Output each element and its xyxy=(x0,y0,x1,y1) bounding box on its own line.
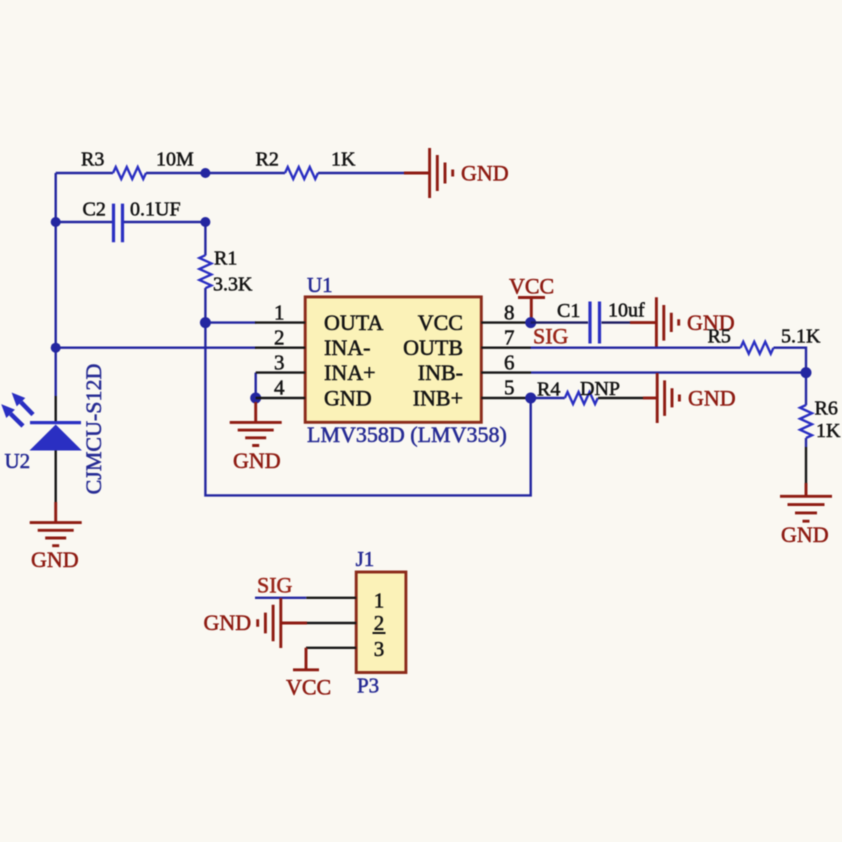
svg-text:R5: R5 xyxy=(708,326,731,348)
svg-text:R3: R3 xyxy=(81,149,104,171)
ground GND (top right) xyxy=(404,148,509,198)
node R3/R2 junction xyxy=(200,168,210,178)
svg-text:1: 1 xyxy=(274,301,285,325)
node INA- junction xyxy=(51,343,61,353)
svg-text:VCC: VCC xyxy=(286,675,331,700)
svg-text:R2: R2 xyxy=(256,149,279,171)
svg-text:1K: 1K xyxy=(331,149,356,171)
wire xyxy=(56,172,113,174)
resistor R4 xyxy=(537,378,620,404)
svg-text:GND: GND xyxy=(204,610,252,635)
ground GND (U1 pin4) xyxy=(230,402,282,473)
photodiode U2 xyxy=(5,364,107,495)
svg-text:R6: R6 xyxy=(815,398,838,420)
wire pin6 to node xyxy=(531,371,806,373)
pin 8 xyxy=(418,301,531,336)
connector J1 xyxy=(356,547,406,698)
svg-text:7: 7 xyxy=(504,326,515,350)
wire xyxy=(531,321,588,323)
svg-text:8: 8 xyxy=(504,301,515,325)
node pin3/pin4 junction xyxy=(250,393,261,404)
svg-text:3: 3 xyxy=(274,351,285,375)
svg-text:INB-: INB- xyxy=(418,360,463,385)
pin 6 xyxy=(418,351,531,386)
svg-text:SIG: SIG xyxy=(533,324,569,349)
ground GND (C1) xyxy=(630,297,735,347)
svg-text:CJMCU-S12D: CJMCU-S12D xyxy=(81,364,106,495)
ground GND (U2) xyxy=(30,502,82,572)
wire xyxy=(204,288,206,323)
svg-text:INA+: INA+ xyxy=(324,360,376,385)
svg-text:2: 2 xyxy=(274,326,285,350)
svg-text:6: 6 xyxy=(504,351,515,375)
svg-text:R4: R4 xyxy=(537,379,560,401)
capacitor C2 xyxy=(83,199,181,243)
pin 5 xyxy=(413,376,531,411)
wire xyxy=(774,348,807,373)
svg-text:10M: 10M xyxy=(156,149,194,171)
resistor R5 xyxy=(708,326,822,354)
ground GND (J1) xyxy=(204,598,308,648)
svg-text:0.1UF: 0.1UF xyxy=(130,199,181,221)
wire xyxy=(805,373,807,406)
svg-text:1K: 1K xyxy=(816,420,841,442)
svg-text:VCC: VCC xyxy=(418,310,463,335)
wire xyxy=(204,222,206,255)
svg-text:GND: GND xyxy=(31,547,79,572)
svg-text:5.1K: 5.1K xyxy=(781,326,821,348)
svg-text:LMV358D (LMV358): LMV358D (LMV358) xyxy=(307,422,507,447)
wire pin3 bend xyxy=(254,373,256,398)
svg-text:DNP: DNP xyxy=(580,378,620,400)
node C2/R1 junction xyxy=(200,217,210,227)
svg-text:U1: U1 xyxy=(307,273,333,297)
svg-text:GND: GND xyxy=(688,386,736,411)
node pin5 junction xyxy=(525,393,536,404)
pin 1 xyxy=(255,301,383,336)
wire xyxy=(56,221,112,223)
svg-text:INB+: INB+ xyxy=(413,386,463,411)
wire xyxy=(805,438,807,447)
ground GND (R6) xyxy=(780,483,832,547)
svg-text:J1: J1 xyxy=(356,547,375,571)
svg-text:5: 5 xyxy=(504,376,515,400)
pin 1 (J1) xyxy=(306,589,384,613)
svg-text:P3: P3 xyxy=(357,674,379,698)
resistor R6 xyxy=(800,398,841,442)
op-amp U1 xyxy=(305,273,507,447)
wire xyxy=(598,397,643,399)
node pin8 junction xyxy=(525,317,536,328)
wire xyxy=(531,397,565,399)
wire xyxy=(318,172,404,174)
svg-text:C2: C2 xyxy=(83,199,106,221)
svg-text:10uf: 10uf xyxy=(608,300,645,322)
svg-text:2: 2 xyxy=(374,611,385,635)
arrow 1 (light) xyxy=(12,393,33,415)
wire INA- xyxy=(56,347,256,349)
wire OUTA xyxy=(205,321,256,323)
wire xyxy=(55,451,57,503)
power VCC (top) xyxy=(509,274,554,323)
pin 2 (J1) xyxy=(307,611,386,635)
svg-text:C1: C1 xyxy=(557,300,580,322)
node C2 left junction xyxy=(51,217,61,227)
node OUTA junction xyxy=(200,317,211,328)
wire xyxy=(531,347,741,349)
net label SIG (J1) xyxy=(255,573,306,598)
capacitor C1 xyxy=(557,300,645,344)
svg-text:GND: GND xyxy=(461,161,509,186)
wire feedback OUTA to INB+ xyxy=(205,323,530,496)
resistor R1 xyxy=(199,248,253,296)
wire xyxy=(602,321,631,323)
pin 7 xyxy=(403,326,531,361)
svg-text:INA-: INA- xyxy=(324,335,370,360)
pin 4 xyxy=(256,376,372,411)
svg-text:OUTA: OUTA xyxy=(324,310,383,335)
svg-text:4: 4 xyxy=(274,376,285,400)
wire xyxy=(146,172,285,174)
svg-text:VCC: VCC xyxy=(509,274,554,299)
svg-text:3.3K: 3.3K xyxy=(213,274,253,296)
ground GND (R4) xyxy=(643,373,736,423)
svg-text:GND: GND xyxy=(233,448,281,473)
svg-text:OUTB: OUTB xyxy=(403,335,463,360)
pin 2 xyxy=(255,326,370,361)
pin 3 xyxy=(256,351,376,386)
svg-text:GND: GND xyxy=(781,522,829,547)
resistor R2 xyxy=(256,149,357,180)
arrow 2 (light) xyxy=(1,404,23,426)
pin 3 (J1) xyxy=(306,637,384,661)
wire xyxy=(55,173,57,396)
svg-text:SIG: SIG xyxy=(257,573,293,598)
svg-text:R1: R1 xyxy=(214,248,237,270)
node R5/R6 junction xyxy=(801,367,812,378)
svg-text:3: 3 xyxy=(374,637,385,661)
power VCC (J1) xyxy=(286,648,331,700)
resistor R3 xyxy=(81,149,194,180)
svg-text:U2: U2 xyxy=(5,449,31,473)
wire xyxy=(124,221,205,223)
svg-text:GND: GND xyxy=(324,386,372,411)
svg-text:1: 1 xyxy=(374,589,385,613)
